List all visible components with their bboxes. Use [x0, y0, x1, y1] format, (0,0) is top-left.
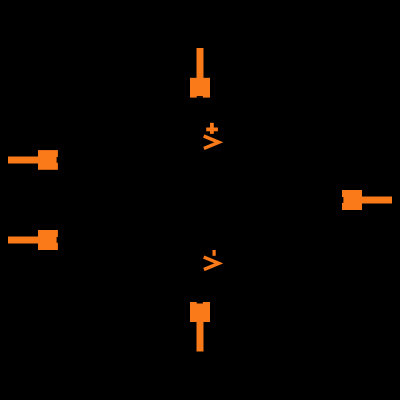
pin V- wire [197, 322, 204, 352]
pin IN+ pad [38, 150, 58, 170]
pin V+ pad [190, 78, 210, 98]
chevron marker > (upper) [204, 136, 219, 148]
pin IN- (left lower): wire [8, 237, 39, 244]
minus sign label near V- (small vertical tick) [213, 250, 216, 256]
pin OUT wire [362, 197, 393, 204]
pin V- (bottom): pad [190, 302, 210, 322]
plus sign label near V+ [206, 123, 218, 134]
pin OUT (right): pad [342, 190, 362, 210]
op-amp U1 positive supply pin V+ (top): wire [197, 48, 204, 79]
pin IN- pad inner notch [57, 237, 58, 243]
pin V+ pad inner notch [197, 96, 203, 98]
chevron marker > (lower) [204, 257, 219, 269]
pin OUT pad inner notch [342, 197, 343, 203]
pin IN+ (left upper): wire [8, 157, 39, 164]
pin V- pad inner notch [197, 302, 203, 304]
pin IN+ pad inner notch [57, 157, 58, 163]
pin IN- pad [38, 230, 58, 250]
